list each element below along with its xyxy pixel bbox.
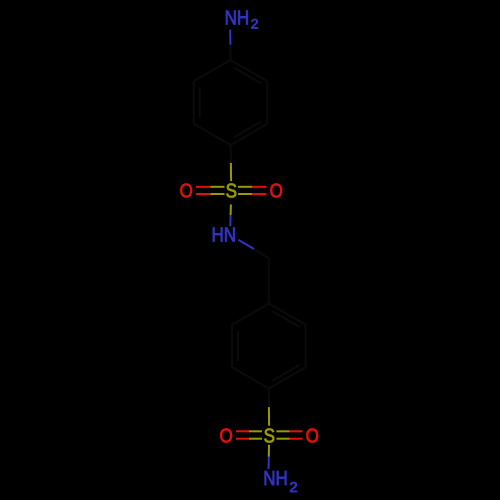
- double bond S2=O2L line a: [236, 431, 303, 438]
- svg-text:2: 2: [251, 15, 259, 31]
- ring1 edge C6-C1: [194, 60, 231, 81]
- benzene ring 1: [194, 60, 268, 145]
- bond C4-S1 (sulfur half): [230, 163, 232, 181]
- svg-text:2: 2: [289, 479, 297, 496]
- bond N-CH2 (nitrogen half): [239, 240, 255, 249]
- bond N-CH2 (carbon half): [254, 249, 269, 259]
- bond N-C1 (carbon half): [229, 45, 231, 60]
- ring2 edge B3-B4: [269, 367, 306, 388]
- bond CH2-ring2: [268, 259, 270, 304]
- double bond S2=O2L line b: [236, 438, 249, 440]
- ring2 edge B4-B5: [232, 367, 269, 388]
- double bond S2=O2R line b: [277, 438, 290, 440]
- ring2 inner double bond B3-B4: [272, 365, 299, 381]
- ring2 edge B5-B6: [231, 325, 233, 368]
- ring1 edge C4-C5: [194, 124, 231, 145]
- double bond S1=O1R line b: [238, 193, 252, 195]
- ring2 inner double bond B1-B2: [272, 311, 299, 327]
- double bond S2=O2R line a: [277, 430, 290, 432]
- svg-text:NH: NH: [263, 467, 288, 490]
- bond C4-S1 (carbon half): [230, 145, 232, 163]
- double bond S1=O1R line a: [238, 186, 252, 188]
- ring2 inner double bond B5-B6: [237, 331, 239, 361]
- benzene ring 2: [232, 304, 306, 389]
- bond S1-N (sulfur half): [230, 205, 232, 216]
- ring2 edge B6-B1: [232, 304, 269, 325]
- bond S1-N (nitrogen half): [229, 215, 231, 226]
- ring1 inner double bond C5-C6: [199, 88, 201, 118]
- ring1 inner double bond C3-C4: [234, 122, 261, 138]
- bond S2-N (sulfur half): [268, 445, 270, 457]
- svg-text:O: O: [180, 179, 193, 202]
- bond N-C1 (blue half): [229, 30, 231, 45]
- ring1 edge C3-C4: [231, 124, 268, 145]
- svg-text:O: O: [270, 179, 283, 202]
- ring2 edge B1-B2: [269, 304, 306, 325]
- bond B4-S2 (sulfur half): [268, 407, 270, 426]
- ring1 edge C1-C2: [231, 60, 268, 81]
- double bond S1=O1L line b: [196, 193, 210, 195]
- double bond S1=O1L line a: [196, 187, 267, 194]
- svg-text:NH: NH: [225, 6, 250, 29]
- ring1 edge C5-C6: [193, 81, 195, 124]
- bond B4-S2 (carbon half): [268, 389, 270, 408]
- ring2 edge B2-B3: [305, 325, 307, 368]
- svg-text:O: O: [306, 424, 319, 447]
- svg-text:HN: HN: [212, 223, 237, 246]
- svg-text:O: O: [219, 424, 232, 447]
- ring1 inner double bond C1-C2: [234, 68, 261, 84]
- svg-text:S: S: [226, 179, 237, 202]
- svg-text:S: S: [264, 424, 275, 447]
- ring1 edge C2-C3: [266, 81, 268, 124]
- bond S2-N (nitrogen half): [268, 457, 270, 469]
